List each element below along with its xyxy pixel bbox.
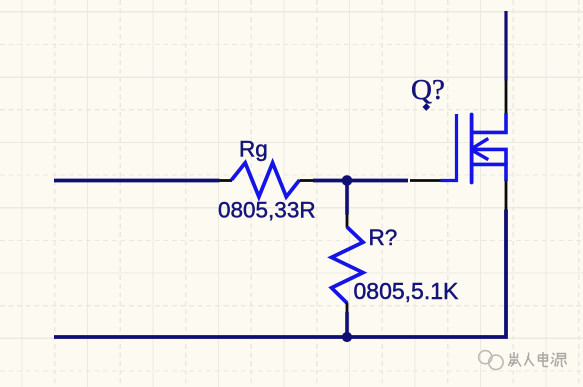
transistor Q? source stub [472, 164, 506, 181]
resistor R? bottom pin [346, 303, 349, 313]
char 嵌 [509, 352, 522, 367]
wire: top-left horizontal net [54, 179, 220, 183]
char 电 [539, 352, 549, 367]
junction node A (top) [342, 175, 353, 186]
wire: R? to bottom junction [345, 312, 349, 337]
transistor Q? gate pin [410, 179, 441, 182]
wire: from Rg to gate (through junction) [313, 179, 408, 183]
resistor R? body (zigzag) [332, 227, 364, 303]
resistor Rg body (zigzag) [232, 163, 300, 197]
resistor R (Rg) left pin [220, 179, 233, 182]
svg-text:0805,5.1K: 0805,5.1K [354, 278, 460, 304]
Q? tail diamond mark [422, 103, 430, 111]
wire: drain up to top edge [504, 11, 507, 81]
resistor Rg right pin [300, 179, 314, 182]
junction node B (bottom) [342, 332, 352, 342]
svg-text:0805,33R: 0805,33R [218, 198, 316, 223]
resistor R? top pin [346, 214, 349, 228]
char 入 [525, 353, 535, 367]
svg-text:R?: R? [369, 225, 398, 250]
transistor Q? body arrow [471, 139, 489, 150]
transistor Q? gate lead [441, 114, 457, 181]
watermark text 嵌入电源 (drawn strokes) [509, 352, 567, 367]
transistor Q? channel bar [470, 115, 474, 183]
char 源 [551, 353, 567, 367]
transistor Q? drain stub [472, 113, 506, 132]
svg-text:Rg: Rg [239, 137, 268, 162]
svg-text:Q?: Q? [411, 74, 445, 106]
watermark logo [479, 351, 503, 370]
transistor Q? source pin [505, 181, 508, 210]
wire: junction down to R? [345, 181, 349, 215]
transistor Q? body stub [471, 149, 506, 164]
transistor Q? drain pin [505, 81, 508, 114]
wire: source down and bottom net [54, 210, 506, 338]
